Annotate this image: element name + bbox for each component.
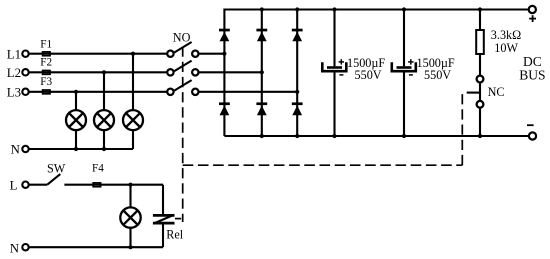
wire lamp HL4 to N	[129, 228, 131, 247]
wire lamp HL1 to N	[75, 130, 77, 149]
node L2 terminal	[22, 69, 28, 75]
wire N line	[29, 148, 133, 150]
svg-text:Rel: Rel	[166, 228, 184, 242]
diode D2	[256, 29, 267, 42]
wire linkage dashed vertical left	[182, 47, 184, 223]
relay coil Rel	[153, 215, 175, 224]
node L terminal (bottom)	[22, 182, 28, 188]
diode D1	[219, 29, 230, 42]
svg-text:N: N	[11, 143, 20, 157]
svg-text:BUS: BUS	[519, 67, 545, 82]
wire NO pole3 to bridge leg3	[199, 91, 298, 93]
wire linkage dash to relay	[175, 218, 181, 220]
wire L3 line	[29, 91, 167, 93]
svg-text:L3: L3	[7, 86, 21, 100]
lamp HL1	[66, 110, 86, 130]
svg-text:L: L	[10, 178, 18, 192]
wire DC+ top rail	[224, 10, 528, 137]
wire relay branch down	[162, 185, 164, 214]
wire N bottom line	[29, 246, 163, 248]
wire bridge leg3	[296, 10, 298, 137]
fuse F1	[43, 52, 50, 56]
wire lamp HL3 to N	[132, 130, 134, 149]
lamp HL3	[123, 110, 143, 130]
svg-text:F2: F2	[40, 57, 52, 69]
svg-text:550V: 550V	[355, 68, 382, 82]
capacitor C1	[322, 10, 346, 137]
svg-text:SW: SW	[47, 162, 66, 176]
contact NO pole 3	[167, 89, 173, 95]
contact NC	[467, 76, 484, 136]
wire DC- bottom rail	[224, 135, 528, 137]
svg-text:L1: L1	[7, 47, 21, 61]
svg-text:L2: L2	[7, 66, 21, 80]
node N terminal (bottom)	[22, 244, 28, 250]
fuse F4	[93, 183, 100, 187]
label - DC	[527, 124, 534, 126]
wire lamp branch from L3	[75, 92, 77, 110]
svg-text:3.3kΩ: 3.3kΩ	[491, 28, 521, 42]
wire linkage dashed vertical right	[461, 90, 463, 166]
wire switch to F4 to junction	[64, 184, 163, 186]
node DC+ terminal	[529, 6, 536, 13]
wire relay to N	[162, 224, 164, 247]
node junction dots	[74, 7, 482, 249]
wire NO pole1 to bridge leg1	[199, 53, 225, 55]
svg-text:F3: F3	[40, 76, 52, 88]
svg-text:NC: NC	[488, 85, 505, 99]
wire lamp HL4 branch	[129, 185, 131, 208]
lamp HL2	[94, 110, 114, 130]
switch SW blade	[47, 174, 60, 185]
wire lamp HL2 to N	[103, 130, 105, 149]
wire lamp branch from L1	[132, 54, 134, 110]
fuse F2	[43, 71, 50, 75]
svg-text:F1: F1	[40, 39, 52, 51]
svg-text:NO: NO	[173, 31, 191, 45]
wire L to switch	[29, 184, 47, 186]
node DC- terminal	[529, 132, 536, 139]
capacitor C2	[392, 10, 416, 137]
svg-text:N: N	[10, 242, 19, 256]
svg-text:550V: 550V	[424, 68, 451, 82]
wire L1 line	[29, 53, 167, 55]
wire NO pole2 to bridge leg2	[199, 71, 262, 73]
wire lamp branch from L2	[103, 72, 105, 110]
contact NO pole 2	[167, 69, 173, 75]
fuse F3	[43, 90, 50, 94]
node N terminal (top)	[22, 146, 28, 152]
wire linkage dashed horizontal	[183, 164, 463, 166]
diode D3	[292, 29, 303, 42]
node L1 terminal	[22, 51, 28, 57]
label + DC	[529, 15, 536, 22]
svg-text:10W: 10W	[494, 41, 518, 55]
wire L2 line	[29, 71, 167, 73]
wire bridge leg2	[261, 10, 263, 137]
diode D4	[219, 102, 230, 115]
svg-text:F4: F4	[92, 162, 104, 174]
resistor R1	[476, 10, 484, 76]
diode D6	[292, 102, 303, 115]
diode D5	[256, 102, 267, 115]
node L3 terminal	[22, 89, 28, 95]
lamp HL4	[120, 207, 140, 227]
contact NO pole 1	[167, 51, 173, 57]
